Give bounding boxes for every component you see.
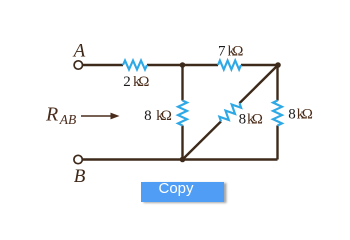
svg-text:8kΩ: 8kΩ [144, 108, 172, 124]
svg-text:AB: AB [59, 112, 77, 127]
svg-text:7kΩ: 7kΩ [218, 43, 243, 59]
svg-text:R: R [45, 103, 58, 125]
svg-text:B: B [74, 166, 86, 187]
svg-text:A: A [72, 41, 86, 62]
svg-text:8kΩ: 8kΩ [239, 111, 263, 127]
svg-text:8kΩ: 8kΩ [288, 107, 313, 123]
svg-text:2kΩ: 2kΩ [123, 74, 149, 90]
